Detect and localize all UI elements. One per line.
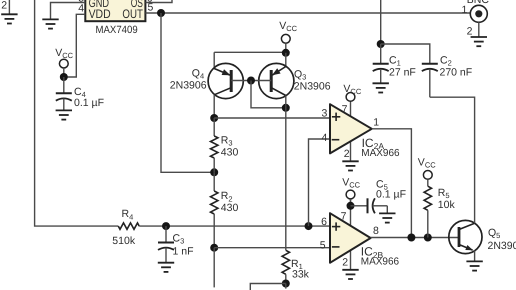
capacitor C3 — [158, 226, 194, 262]
node — [424, 234, 432, 242]
resistor R3 — [211, 118, 239, 172]
wire — [231, 80, 271, 82]
svg-text:27 nF: 27 nF — [389, 66, 416, 78]
pin 3 label (cropped) — [78, 0, 84, 5]
node — [282, 280, 290, 288]
pin 5 label — [320, 239, 326, 251]
pin 5 label — [148, 1, 154, 13]
ground — [471, 22, 487, 46]
pin 4 label — [321, 132, 327, 144]
ground — [42, 19, 58, 28]
ground — [342, 161, 358, 170]
svg-text:2: 2 — [1, 0, 7, 11]
svg-text:0.1 µF: 0.1 µF — [74, 97, 104, 109]
svg-text:1 nF: 1 nF — [173, 245, 194, 257]
svg-text:2N3906: 2N3906 — [294, 80, 331, 92]
ground — [466, 261, 482, 270]
wire — [214, 117, 329, 119]
node — [407, 234, 415, 242]
svg-text:3: 3 — [321, 108, 327, 120]
pin 2 label — [342, 257, 348, 269]
ground — [373, 83, 389, 92]
svg-text:2N3906: 2N3906 — [170, 79, 207, 91]
svg-text:2N3904: 2N3904 — [488, 240, 516, 252]
node — [157, 9, 165, 17]
IC U1 MAX7409 — [85, 0, 145, 36]
power VCC — [342, 177, 360, 206]
power VCC — [343, 83, 361, 102]
svg-text:5: 5 — [320, 239, 326, 251]
wire — [214, 51, 286, 53]
transistor Q3 — [259, 53, 331, 99]
ground — [342, 270, 358, 279]
pin 1 label — [462, 4, 468, 16]
node — [60, 73, 68, 81]
wire — [380, 0, 382, 44]
svg-text:MAX966: MAX966 — [361, 148, 400, 159]
ground — [379, 213, 395, 222]
svg-text:MAX7409: MAX7409 — [96, 24, 138, 36]
power VCC — [279, 20, 297, 53]
power VCC — [418, 157, 436, 180]
node — [282, 49, 290, 57]
wire — [309, 139, 330, 226]
svg-text:2: 2 — [342, 257, 348, 269]
wire — [371, 237, 459, 239]
node — [377, 40, 385, 48]
svg-text:8: 8 — [373, 225, 379, 237]
wire — [251, 81, 286, 108]
ground — [1, 0, 17, 24]
svg-text:2: 2 — [344, 148, 350, 160]
pin 2 label — [1, 0, 7, 11]
wire — [35, 0, 119, 226]
capacitor C4 — [56, 77, 104, 110]
wire — [213, 248, 215, 288]
wire — [161, 13, 214, 172]
ground — [56, 110, 72, 119]
svg-text:0.1 µF: 0.1 µF — [376, 188, 406, 200]
node — [282, 104, 290, 112]
transistor Q5 — [449, 220, 516, 261]
wire — [285, 96, 287, 251]
wire — [381, 44, 430, 64]
wire — [372, 129, 412, 238]
pin 7 label — [341, 210, 347, 222]
node — [162, 222, 170, 230]
svg-text:510k: 510k — [112, 235, 136, 247]
svg-text:270 nF: 270 nF — [440, 66, 473, 78]
resistor R2 — [211, 172, 239, 247]
op-amp IC2B — [330, 199, 399, 270]
wire — [250, 284, 285, 290]
wire — [430, 97, 475, 223]
node — [347, 202, 355, 210]
pin 8 label — [373, 225, 379, 237]
wire — [285, 284, 287, 289]
svg-text:10k: 10k — [438, 199, 456, 211]
capacitor C1 — [373, 44, 416, 83]
pin 2 label — [344, 148, 350, 160]
svg-text:6: 6 — [321, 216, 327, 228]
svg-text:430: 430 — [221, 202, 239, 214]
wire — [64, 14, 86, 77]
capacitor C2 — [422, 55, 472, 98]
svg-text:1: 1 — [373, 117, 379, 129]
node — [210, 168, 218, 176]
svg-text:430: 430 — [221, 146, 239, 158]
node — [305, 222, 313, 230]
node — [247, 77, 255, 85]
pin 6 label (cropped) — [147, 0, 153, 5]
svg-text:33k: 33k — [292, 268, 310, 280]
transistor Q4 — [170, 52, 243, 118]
wire — [145, 12, 470, 14]
pin 1 label — [373, 117, 379, 129]
node — [210, 114, 218, 122]
wire — [145, 0, 172, 3]
svg-text:1: 1 — [462, 4, 468, 16]
resistor R4 — [112, 208, 139, 247]
svg-text:MAX966: MAX966 — [361, 256, 400, 267]
wire — [139, 225, 329, 227]
ground — [158, 263, 174, 272]
connector BNC — [467, 0, 490, 22]
svg-text:4: 4 — [321, 132, 327, 144]
svg-text:7: 7 — [342, 103, 348, 115]
node — [210, 244, 218, 252]
wire — [214, 247, 329, 249]
svg-text:VDD: VDD — [89, 7, 111, 21]
pin 3 label — [321, 108, 327, 120]
op-amp IC2A — [330, 101, 400, 161]
wire — [51, 3, 86, 20]
pin 4 label — [78, 3, 84, 15]
pin 2 label — [467, 26, 473, 38]
svg-text:BNC: BNC — [467, 0, 490, 6]
power VCC — [55, 47, 73, 77]
svg-text:4: 4 — [78, 3, 84, 15]
resistor R5 — [424, 179, 455, 237]
pin 7 label — [342, 103, 348, 115]
svg-text:2: 2 — [467, 26, 473, 38]
svg-text:7: 7 — [341, 210, 347, 222]
pin 6 label — [321, 216, 327, 228]
capacitor C5 — [351, 178, 406, 213]
svg-text:OUT: OUT — [122, 7, 143, 21]
resistor R1 — [282, 250, 310, 283]
